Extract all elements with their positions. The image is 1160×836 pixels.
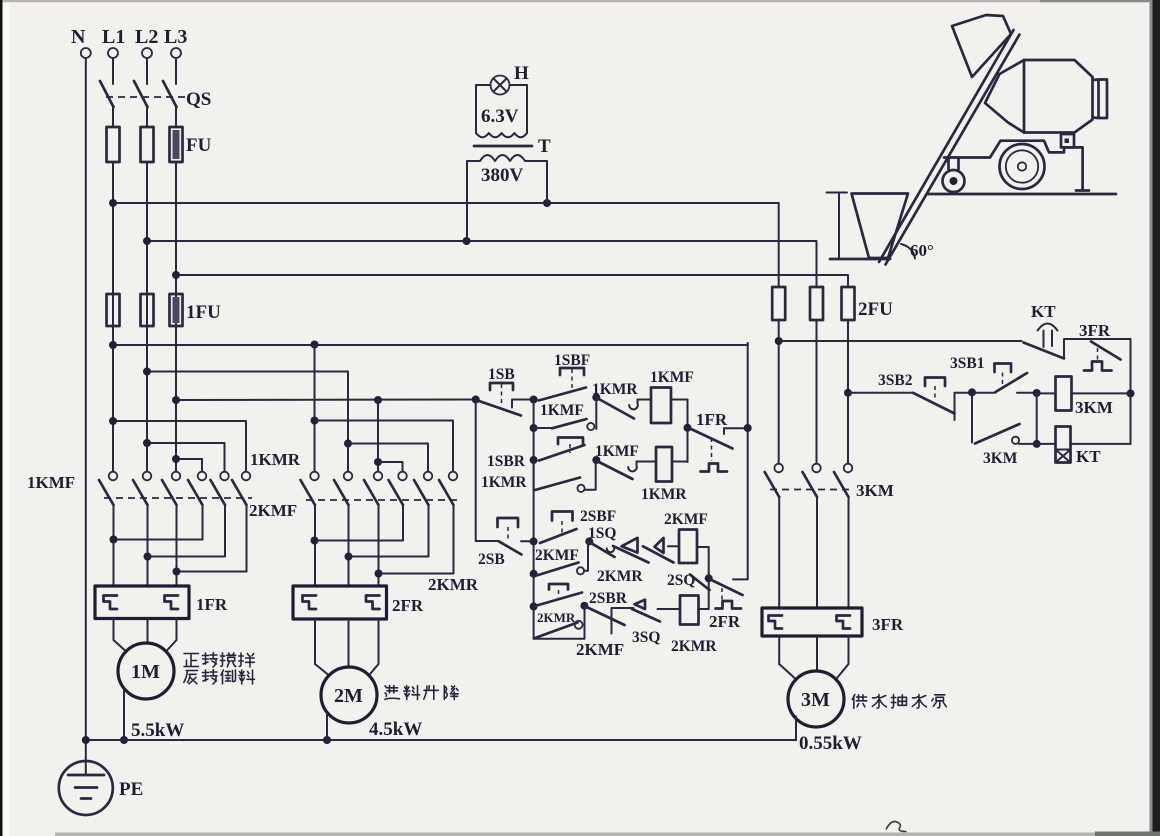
switch QS pole 1 blade [100,81,114,107]
contact 2FR NC thermal [709,579,748,631]
motor 2M [315,619,379,723]
limit switch wedge 1 [622,538,638,553]
wire motor 3M to ground bus [795,717,797,741]
switch QS linkage dashed [106,89,211,110]
contactor 2KMF feed 3 [374,400,382,472]
fuse 1FU pole 3 [170,294,222,326]
contact 1FR NC thermal [690,410,748,472]
svg-text:2KMF: 2KMF [249,501,297,520]
node cross-feed to 2KMR contact 4 [378,462,403,472]
svg-text:3KM: 3KM [983,450,1018,467]
contactor 1KMR main contact 4 [110,472,207,544]
limit switch 1SQ NC [591,543,615,557]
coil 1KMF [650,369,694,423]
svg-text:60°: 60° [910,241,934,260]
button 1SB stop [479,366,534,416]
switch QS pole 3 blade [163,81,177,107]
svg-text:1KMR: 1KMR [592,381,638,398]
scan artifact pen squiggle [886,822,907,832]
label motor1 chinese line2 [184,670,255,685]
terminal L2 [135,26,158,58]
node cross-feed to 2KMR contact 6 [315,421,454,472]
linkage dashed 2KMF-2KMR [306,499,459,501]
contactor 2KMF feed 2 [344,440,352,448]
thermal relay 3FR box [762,608,904,636]
svg-text:1KMR: 1KMR [481,474,527,491]
contactor 2KMR main contact 5 [345,472,433,561]
contactor 1KMR main contact 5 [144,472,229,561]
node 1SBR right [592,456,600,464]
wire 2FU-2 to 3KM [816,320,818,464]
svg-text:6.3V: 6.3V [481,106,519,127]
limit switch wedge 3 [635,600,646,609]
contactor 1KMF main contact 3 [162,472,180,586]
fuse 2FU pole 3 [842,287,894,320]
label 5.5kW [131,720,184,741]
wire 1KMR coil right [672,461,688,463]
svg-text:KT: KT [1076,447,1101,466]
svg-text:2KMF: 2KMF [664,511,708,528]
svg-text:4.5kW: 4.5kW [369,719,422,740]
wire 3KM rung feed [848,392,913,394]
svg-text:2FU: 2FU [858,299,893,320]
left control rail to 2SB [476,400,499,542]
wire 2FU-3 to 3KM [844,320,852,464]
wire 1KMF coil to 1FR [671,400,692,463]
svg-text:2KMR: 2KMR [428,575,479,594]
svg-text:2KMF: 2KMF [576,640,624,659]
node after 1SB [530,396,538,639]
svg-text:1SB: 1SB [488,366,515,383]
contactor 2KMF main contact 3 [364,472,382,586]
svg-text:3FR: 3FR [1079,321,1111,340]
linkage dashed 3KM [770,481,894,500]
coil 1KMR [641,447,687,503]
bus line 6 control rung feed [172,396,480,405]
mixer ground line [927,193,1116,196]
wire motor 1M to ground bus [120,689,128,745]
coil 3KM [1037,377,1131,418]
motor 1M [114,619,177,700]
svg-text:2KMR: 2KMR [671,638,717,655]
svg-text:KT: KT [1031,302,1056,321]
terminal N [71,26,91,58]
contact 3KM self-hold [972,393,1037,467]
node cross-feed to 2KMR contact 5 [348,444,428,472]
svg-text:2SBR: 2SBR [589,590,628,607]
scan artifact left edge [0,0,3,836]
mixer lower hopper [830,194,908,260]
earth symbol PE [59,761,143,815]
fuse 1FU pole 1 [107,294,120,326]
blade into 2KMF coil [643,546,679,562]
wire L3 FU to bank [175,162,177,472]
linkage dashed 1KMF-1KMR [104,497,252,499]
thermal relay 1FR box [95,586,228,619]
bus line 5 [143,368,348,472]
contactor 2KMF main contact 2 [334,472,352,586]
contactor 2KMR main contact 4 [311,472,407,545]
wire L1 drop to QS [112,58,114,84]
coil 2KMR [671,596,717,656]
svg-text:5.5kW: 5.5kW [131,720,184,741]
svg-text:380V: 380V [481,165,524,186]
scan artifact right edge [1150,0,1160,836]
svg-text:2SQ: 2SQ [667,572,695,589]
mixer small wheel [943,170,965,192]
contact 2KMF self-hold [535,541,588,575]
coil 2KMF [664,511,708,563]
contactor 1KMR main contact 6 [173,472,251,576]
transformer T core [474,136,551,157]
svg-text:2KMF: 2KMF [535,547,579,564]
button 3SB2 stop [878,372,972,420]
svg-text:3SB2: 3SB2 [878,372,913,389]
bus line 2 L2 to 2FU [143,237,817,287]
contactor 3KM main contact 3 [834,464,852,608]
right rail rung3 [1127,339,1135,444]
thermal relay 2FR box [293,586,424,619]
svg-text:2SB: 2SB [478,551,505,568]
label 1KMF bank [27,473,75,492]
svg-text:2KMR: 2KMR [597,568,643,585]
svg-text:1FR: 1FR [196,595,228,614]
wire L2 drop to QS [146,58,148,84]
svg-text:3FR: 3FR [872,615,904,634]
contact 1KMF NC interlock [595,443,656,479]
svg-text:2KMR: 2KMR [537,610,576,625]
button 2SB stop [478,518,534,568]
label 2KMR bank [428,575,479,594]
svg-text:1KMR: 1KMR [641,486,687,503]
motor 3M [779,636,848,727]
switch QS pole 2 blade [134,81,148,107]
node 3KM coil left [1033,389,1041,448]
svg-text:1SQ: 1SQ [588,525,616,542]
node 2SBF right [585,525,616,545]
svg-text:1M: 1M [131,661,160,683]
bus line 3 L3 to 2FU [172,271,848,287]
label 0.55kW [799,733,862,754]
wire 2FU-1 to 3KM [775,320,783,464]
label motor3 chinese [852,695,946,709]
svg-text:QS: QS [186,89,211,110]
contactor 2KMF feed 1 [311,345,319,472]
contactor 2KMF main contact 1 [301,472,319,586]
svg-text:1FR: 1FR [696,410,728,429]
contact 1KMF self-hold [534,402,595,430]
contactor 3KM main contact 1 [765,464,783,608]
svg-text:3SQ: 3SQ [632,629,660,646]
svg-text:1KMF: 1KMF [540,402,584,419]
contactor 1KMF main contact 1 [99,472,117,586]
svg-text:L2: L2 [135,26,158,48]
fuse FU pole 3 [170,127,212,162]
wire L1 QS to FU [112,107,114,127]
wire N vertical [85,58,87,762]
wire L1 FU to bank [112,162,114,472]
terminal L3 [164,26,187,58]
node 3SB2 right [968,388,996,396]
fuse 2FU pole 1 [772,287,785,320]
svg-text:1SBR: 1SBR [487,453,526,470]
fuse FU pole 2 [141,127,154,162]
wire motor 2M to ground bus [326,713,328,741]
label 1KMR bank [250,450,301,469]
node L2 cross-feed to 1KMR [143,439,225,472]
label motor1 chinese line1 [184,653,254,668]
svg-text:1KMF: 1KMF [595,443,639,460]
coil KT with X [1037,427,1131,467]
svg-text:FU: FU [186,135,212,156]
fuse 2FU pole 2 [810,287,823,320]
button 2SBF [540,508,616,543]
wire top feed to KT contact [779,340,1022,342]
node 2SBR right [580,602,588,610]
svg-text:T: T [538,136,551,157]
svg-text:0.55kW: 0.55kW [799,733,862,754]
scan artifact bottom band [55,832,1160,836]
mixer big wheel [1000,144,1045,189]
contactor 2KMR main contact 6 [375,472,458,578]
svg-text:3SB1: 3SB1 [950,355,984,372]
svg-text:1KMF: 1KMF [650,369,694,386]
label 4.5kW [369,719,422,740]
label 2KMF bank [249,501,297,520]
limit switch 2SQ blade [667,572,710,590]
ground bus bottom [82,736,796,744]
transformer T secondary loop 6.3V [476,85,527,137]
contact 1KMR NC interlock [592,381,651,419]
contactor 3KM main contact 2 [803,464,821,608]
mixer dimension line [827,193,848,259]
mixer drum [985,60,1107,133]
svg-text:3M: 3M [801,689,830,711]
button 1SBR start reverse [487,438,585,471]
svg-text:1KMF: 1KMF [27,473,75,492]
mixer illustration rail [879,30,1020,265]
svg-text:PE: PE [119,779,143,800]
bus line 1 L1 to 2FU [109,199,779,287]
fuse 1FU pole 2 [141,294,154,326]
fuse FU pole 1 [107,127,120,162]
limit switch wedge 2 [655,538,664,553]
svg-text:2M: 2M [334,685,363,707]
wire L3 drop to QS [175,58,177,84]
blade into 2KMR coil [632,609,680,622]
wire KT to 3FR [1064,339,1131,359]
lamp H [491,63,530,95]
limit switch 3SQ NC [586,607,661,647]
svg-text:1SBF: 1SBF [554,352,590,369]
svg-text:2FR: 2FR [709,612,741,631]
contact 3FR NC thermal [1079,321,1121,371]
mixer chassis frame [944,134,1089,191]
wire L2 QS to FU [146,107,148,127]
svg-text:H: H [514,63,529,84]
contactor 1KMF main contact 2 [133,472,151,586]
bus line 4 control feed top [109,341,748,350]
svg-text:2FR: 2FR [392,596,424,615]
svg-text:L1: L1 [102,26,125,48]
node 1SBF right [592,393,600,429]
node L3 cross-feed to 1KMR [172,455,202,472]
transformer T primary 380V [467,155,547,241]
button 1SBF start forward [539,352,591,401]
svg-text:2SBF: 2SBF [580,508,616,525]
wire 2KMF coil to 2FR [697,547,713,609]
contact 2KMR self-hold loop [534,606,625,659]
svg-text:1KMR: 1KMR [250,450,301,469]
svg-text:N: N [71,26,86,48]
mixer feed bucket top [952,15,1011,77]
mixer angle 60 deg [901,241,934,260]
control right rail [744,343,752,579]
contact 2KMR NC blade [597,546,649,585]
node after 2SB [530,537,538,610]
scan artifact top edge [0,0,1160,2]
svg-text:L3: L3 [164,26,187,48]
svg-text:1FU: 1FU [186,302,221,323]
button 3SB1 start [950,355,1037,393]
node L1 cross-feed to 1KMR [109,417,246,472]
contact 1KMR self-hold [481,460,596,492]
wire L2 FU to bank [146,162,148,472]
label motor2 chinese [385,686,458,700]
svg-text:3KM: 3KM [1075,398,1113,417]
timed contact KT [1024,302,1065,359]
button 2SBR [535,584,628,607]
wire L3 QS to FU [175,107,177,127]
terminal L1 [102,26,125,58]
svg-text:3KM: 3KM [856,481,894,500]
